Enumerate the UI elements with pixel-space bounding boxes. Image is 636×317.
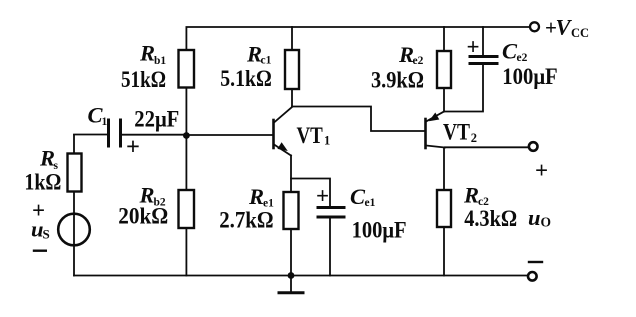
label Ce1	[350, 184, 376, 209]
terminal output bottom	[528, 272, 537, 281]
node base VT1 junction dot	[183, 132, 190, 139]
svg-text:VT: VT	[443, 119, 470, 144]
resistor Re2	[437, 51, 451, 88]
svg-text:R: R	[248, 184, 264, 209]
label Ce2	[502, 39, 528, 64]
resistor Rb2	[179, 190, 195, 228]
wire bottom ground rail	[74, 275, 527, 277]
svg-text:+: +	[535, 158, 548, 183]
svg-text:b1: b1	[154, 55, 166, 67]
label VT1	[297, 123, 331, 148]
label Rc2	[463, 183, 489, 209]
svg-text:S: S	[43, 227, 50, 242]
wire C1 to base node	[123, 134, 187, 136]
svg-text:c1: c1	[261, 55, 272, 67]
wire VT2 collector to output terminal	[445, 146, 528, 148]
label C1	[88, 103, 108, 128]
terminal output top	[529, 142, 538, 151]
transistor VT2	[426, 112, 446, 149]
svg-text:1: 1	[324, 134, 330, 148]
svg-text:100μF: 100μF	[352, 218, 407, 243]
wire Re1 bottom to ground rail	[290, 229, 292, 276]
label Re2	[398, 42, 424, 67]
label Rc1	[246, 41, 272, 66]
svg-text:1: 1	[102, 116, 108, 128]
svg-text:51kΩ: 51kΩ	[121, 67, 166, 92]
wire Ce1 bottom to ground rail	[329, 219, 331, 276]
label Re1	[248, 184, 274, 209]
svg-text:+: +	[316, 184, 329, 209]
wire Rb2 bottom to ground rail	[185, 228, 187, 276]
label Rb2	[139, 183, 166, 209]
wire Rc2 bottom to ground rail	[443, 227, 445, 276]
ground	[279, 276, 303, 293]
svg-text:u: u	[528, 205, 541, 230]
svg-text:4.3kΩ: 4.3kΩ	[464, 206, 517, 231]
svg-text:e1: e1	[365, 197, 376, 209]
source uS	[58, 214, 90, 246]
svg-text:R: R	[463, 183, 479, 208]
label Rb1	[139, 41, 166, 67]
svg-text:CC: CC	[571, 26, 589, 40]
transistor VT1	[274, 107, 293, 156]
wire Rs to source	[73, 192, 75, 276]
capacitor Ce1	[318, 208, 344, 218]
svg-text:20kΩ: 20kΩ	[118, 204, 168, 229]
label uO	[528, 205, 551, 230]
svg-text:2.7kΩ: 2.7kΩ	[219, 207, 273, 232]
svg-text:VT: VT	[297, 123, 323, 148]
capacitor C1	[109, 120, 121, 146]
minus sign source	[34, 249, 46, 251]
svg-text:+: +	[126, 134, 140, 161]
wire base VT1	[186, 134, 272, 136]
resistor Rc2	[437, 190, 451, 227]
resistor Rs	[68, 154, 82, 192]
svg-text:e2: e2	[517, 52, 528, 64]
svg-text:O: O	[541, 214, 552, 229]
wire Rc1 bottom to collector node	[291, 89, 293, 107]
svg-text:2: 2	[471, 131, 477, 145]
wire VT1 emitter down to Re1	[290, 156, 292, 193]
label +VCC	[545, 15, 589, 40]
wire VT2 collector down to Rc2	[443, 148, 445, 191]
svg-text:5.1kΩ: 5.1kΩ	[220, 66, 271, 91]
wire coupling VT1 collector to VT2 base	[292, 107, 424, 132]
wire Rb1 bottom to base node	[185, 88, 187, 136]
label Rs	[39, 146, 59, 173]
wire Rs top to C1	[74, 134, 107, 136]
wire top supply rail	[186, 27, 530, 50]
label VT2	[443, 119, 477, 145]
svg-text:1kΩ: 1kΩ	[24, 170, 61, 195]
svg-text:100μF: 100μF	[502, 64, 557, 89]
resistor Re1	[284, 192, 299, 229]
svg-text:+: +	[466, 35, 479, 60]
svg-text:3.9kΩ: 3.9kΩ	[371, 67, 424, 92]
svg-text:V: V	[556, 15, 573, 40]
wire base node to Rb2	[185, 136, 187, 190]
minus sign output	[529, 261, 542, 263]
wire emitter branch to Ce1	[291, 179, 330, 206]
svg-text:R: R	[139, 41, 155, 66]
resistor Rb1	[179, 50, 195, 88]
label uS	[31, 217, 50, 242]
svg-text:22μF: 22μF	[134, 106, 179, 131]
capacitor Ce2	[470, 57, 497, 64]
wire Ce2 bottom to emitter node	[444, 65, 483, 112]
terminal +VCC	[530, 22, 539, 31]
node emitter ground junction dot	[288, 272, 295, 279]
resistor Rc1	[285, 50, 299, 89]
wire Re2 bottom to emitter VT2	[443, 88, 445, 112]
svg-text:e2: e2	[413, 55, 424, 67]
